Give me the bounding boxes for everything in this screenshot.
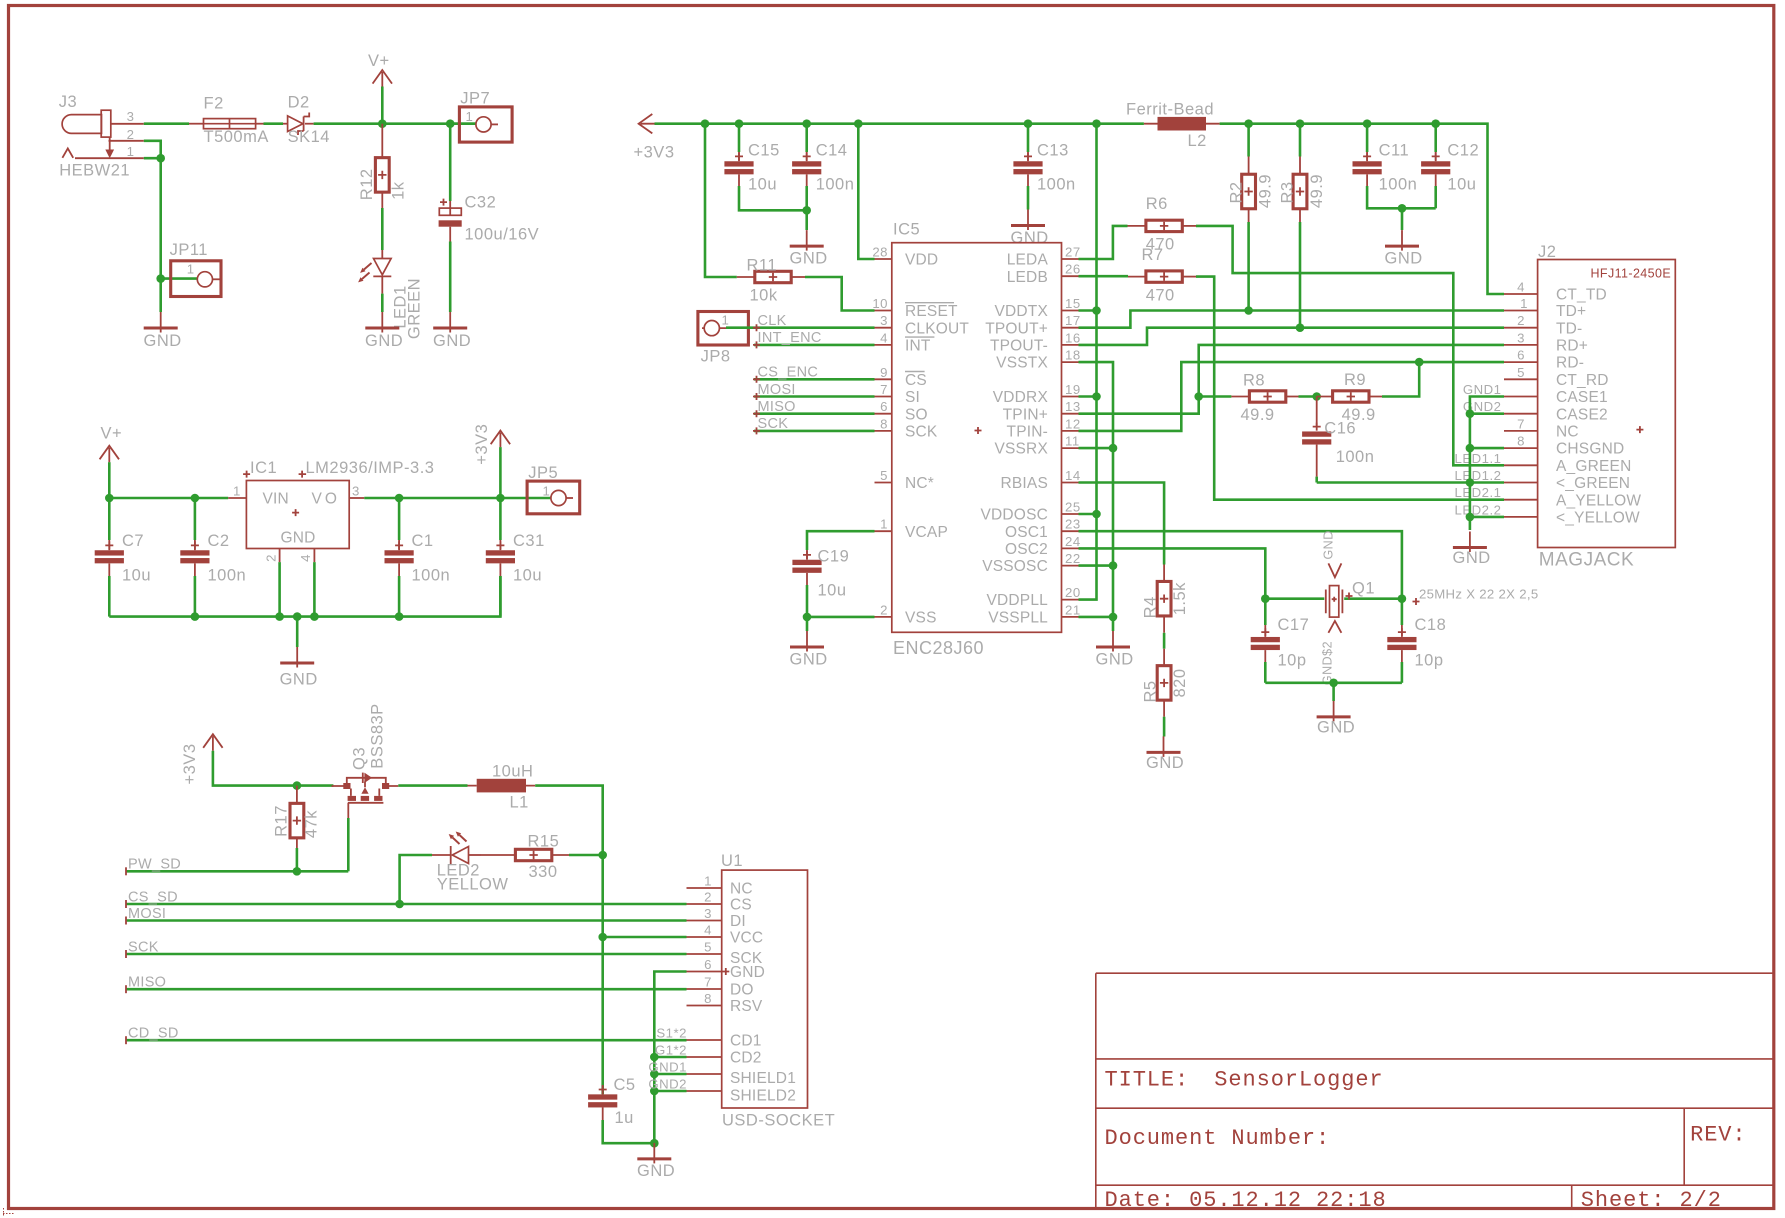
svg-text:CD_SD: CD_SD bbox=[128, 1025, 179, 1041]
svg-text:GND: GND bbox=[1096, 650, 1134, 668]
svg-text:1k: 1k bbox=[390, 181, 408, 200]
svg-text:VCAP: VCAP bbox=[905, 524, 948, 541]
wire R7 to A_YELLOW bbox=[1196, 277, 1504, 500]
svg-text:4: 4 bbox=[1517, 280, 1525, 295]
node junctions bottom rail bbox=[191, 612, 200, 621]
net INT_ENC wire bbox=[754, 344, 875, 347]
svg-text:A_YELLOW: A_YELLOW bbox=[1556, 492, 1641, 509]
svg-text:SensorLogger: SensorLogger bbox=[1214, 1067, 1383, 1092]
svg-text:SCK: SCK bbox=[128, 939, 159, 955]
power +3V3 arrow (SD) bbox=[203, 734, 222, 751]
svg-text:VDDPLL: VDDPLL bbox=[986, 592, 1048, 609]
net OSC1 wire bbox=[1079, 531, 1402, 599]
svg-text:MOSI: MOSI bbox=[758, 382, 796, 398]
svg-text:GND2: GND2 bbox=[648, 1077, 687, 1092]
capacitor C11 100n bbox=[1366, 124, 1369, 152]
svg-text:IC1: IC1 bbox=[250, 459, 277, 477]
svg-text:C31: C31 bbox=[513, 532, 545, 550]
svg-text:R7: R7 bbox=[1142, 246, 1164, 264]
ground under C32 bbox=[433, 312, 467, 333]
svg-text:100n: 100n bbox=[1037, 175, 1076, 193]
svg-text:RESET: RESET bbox=[905, 303, 958, 320]
svg-text:TPIN+: TPIN+ bbox=[1003, 406, 1048, 423]
U1 pin G1*2 CD2 bbox=[687, 1056, 722, 1058]
wire J3 pin3 to fuse bbox=[144, 122, 189, 125]
node junction JP11 bbox=[156, 274, 165, 283]
svg-text:U1: U1 bbox=[721, 852, 743, 870]
svg-text:Q1: Q1 bbox=[1352, 580, 1375, 598]
svg-text:VSSPLL: VSSPLL bbox=[988, 610, 1048, 627]
resistor R17 47k bbox=[296, 786, 298, 848]
LED1 GREEN bbox=[358, 250, 424, 339]
net label CS_SD bbox=[126, 903, 687, 906]
svg-text:BSS83P: BSS83P bbox=[369, 703, 387, 768]
svg-text:GND: GND bbox=[1385, 250, 1423, 268]
svg-text:R6: R6 bbox=[1146, 195, 1168, 213]
ground under MAGJACK bbox=[1453, 532, 1487, 553]
node junction J3 pins bbox=[156, 154, 165, 163]
net label MOSI (SD) bbox=[126, 919, 687, 922]
svg-text:CASE2: CASE2 bbox=[1556, 406, 1608, 423]
net CS_ENC wire bbox=[754, 378, 875, 381]
svg-text:8: 8 bbox=[1517, 434, 1525, 449]
svg-text:1: 1 bbox=[187, 261, 195, 276]
svg-text:NC*: NC* bbox=[905, 475, 934, 492]
capacitor C14 100n bbox=[805, 124, 808, 152]
ground under crystal bbox=[1317, 701, 1351, 722]
rail after bead bbox=[1220, 124, 1504, 294]
IC5 ENC28J60 box bbox=[892, 243, 1062, 633]
IC5 pin 10 RESET bbox=[875, 310, 892, 312]
svg-text:3: 3 bbox=[1517, 330, 1525, 345]
wire VSS bbox=[807, 617, 875, 631]
svg-text:GND: GND bbox=[790, 250, 828, 268]
IC U1 USD-SOCKET bbox=[722, 870, 808, 1108]
svg-text:Ferrit-Bead: Ferrit-Bead bbox=[1126, 101, 1214, 119]
svg-text:11: 11 bbox=[1065, 434, 1080, 449]
svg-text:2: 2 bbox=[263, 554, 278, 562]
svg-text:PW_SD: PW_SD bbox=[128, 857, 181, 873]
svg-text:L2: L2 bbox=[1188, 132, 1207, 150]
svg-text:22: 22 bbox=[1065, 551, 1081, 566]
svg-text:CD2: CD2 bbox=[730, 1050, 762, 1067]
svg-text:3: 3 bbox=[352, 484, 360, 499]
svg-text:1.5k: 1.5k bbox=[1171, 582, 1189, 615]
svg-text:Date: 05.12.12 22:18: Date: 05.12.12 22:18 bbox=[1105, 1188, 1387, 1213]
svg-text:YELLOW: YELLOW bbox=[437, 876, 509, 894]
svg-text:R11: R11 bbox=[747, 257, 778, 275]
svg-text:LED1.2: LED1.2 bbox=[1455, 468, 1502, 483]
J2 pin GND1 CASE1 bbox=[1504, 396, 1538, 398]
svg-text:GND: GND bbox=[1321, 530, 1335, 559]
IC5 pin 23 OSC1 bbox=[1062, 530, 1079, 532]
svg-text:R12: R12 bbox=[358, 168, 376, 200]
svg-text:10uH: 10uH bbox=[492, 763, 533, 781]
svg-text:R8: R8 bbox=[1243, 372, 1265, 390]
IC5 pin 17 TPOUT+ bbox=[1062, 327, 1079, 329]
fuse F2 T500mA bbox=[189, 95, 269, 147]
IC5 pin 1 VCAP bbox=[875, 530, 892, 532]
svg-text:1: 1 bbox=[880, 517, 888, 532]
svg-text:100n: 100n bbox=[208, 567, 247, 585]
svg-text:DI: DI bbox=[730, 913, 746, 930]
svg-text:C16: C16 bbox=[1324, 420, 1356, 438]
svg-text:DO: DO bbox=[730, 982, 754, 999]
resistor R15 330 bbox=[481, 854, 515, 856]
svg-text:C11: C11 bbox=[1379, 142, 1410, 160]
svg-text:49.9: 49.9 bbox=[1257, 174, 1275, 208]
VSSPLL wire bbox=[1079, 616, 1114, 619]
U1 pin 1 NC bbox=[687, 887, 722, 889]
connector J3 HEBW21 bbox=[59, 93, 144, 180]
svg-text:TPOUT-: TPOUT- bbox=[990, 338, 1048, 355]
IC J2 HFJ11-2450E box bbox=[1538, 260, 1676, 548]
U1 pin 3 DI bbox=[687, 920, 722, 922]
svg-text:5: 5 bbox=[704, 940, 712, 955]
svg-text:2: 2 bbox=[1517, 313, 1525, 328]
ground under LED1 bbox=[365, 312, 399, 333]
svg-text:25MHz X 22 2X 2,5: 25MHz X 22 2X 2,5 bbox=[1419, 587, 1538, 602]
svg-text:6: 6 bbox=[704, 957, 712, 972]
capacitor C16 100n bbox=[1316, 397, 1318, 426]
svg-text:CLKOUT: CLKOUT bbox=[905, 320, 969, 337]
svg-text:C15: C15 bbox=[748, 142, 780, 160]
IC5 pin 19 VDDRX bbox=[1062, 396, 1079, 398]
U1 pin S1*2 CD1 bbox=[687, 1039, 722, 1041]
svg-text:10: 10 bbox=[872, 296, 888, 311]
svg-text:SCK: SCK bbox=[905, 424, 938, 441]
resistor R11 10k bbox=[737, 276, 755, 278]
J2 pin LED2.2 &lt;_YELLOW bbox=[1504, 516, 1538, 518]
svg-text:6: 6 bbox=[880, 399, 888, 414]
wire J3 pin2 jog bbox=[144, 141, 161, 158]
wire GND pin6 bbox=[654, 972, 686, 1144]
net TD+ (TPOUT+ to J2 TD+) bbox=[1079, 311, 1505, 328]
wire input rail to VIN bbox=[109, 497, 228, 500]
svg-text:4: 4 bbox=[298, 554, 313, 562]
ground under C13 bbox=[1011, 210, 1045, 231]
svg-text:GND: GND bbox=[637, 1162, 675, 1180]
jumper JP11 bbox=[170, 241, 221, 296]
svg-text:R2: R2 bbox=[1227, 181, 1245, 203]
J2 pin 5 CT_RD bbox=[1504, 378, 1538, 380]
svg-text:Document Number:: Document Number: bbox=[1105, 1126, 1331, 1151]
title block frame bbox=[1096, 973, 1774, 1208]
IC5 pin 15 VDDTX bbox=[1062, 310, 1079, 312]
svg-text:C14: C14 bbox=[816, 142, 848, 160]
svg-text:10u: 10u bbox=[748, 175, 777, 193]
wire VCC bbox=[603, 936, 687, 939]
wire R6 to A_GREEN bbox=[1196, 226, 1504, 465]
svg-text:100n: 100n bbox=[412, 567, 451, 585]
svg-text:100u/16V: 100u/16V bbox=[465, 226, 540, 244]
rail junction nodes (right) bbox=[1244, 119, 1253, 128]
svg-text:2: 2 bbox=[127, 127, 135, 142]
svg-text:23: 23 bbox=[1065, 517, 1081, 532]
svg-text:C17: C17 bbox=[1278, 616, 1310, 634]
rail junction nodes bbox=[701, 119, 710, 128]
svg-text:SK14: SK14 bbox=[288, 128, 330, 146]
svg-text:TD+: TD+ bbox=[1556, 303, 1586, 320]
IC5 pin 27 LEDA bbox=[1062, 258, 1079, 260]
svg-text:IC5: IC5 bbox=[893, 221, 920, 239]
svg-text:<_YELLOW: <_YELLOW bbox=[1556, 510, 1640, 527]
svg-text:VCC: VCC bbox=[730, 930, 763, 947]
capacitor C19 10u bbox=[806, 550, 808, 560]
wire rail to VDD pin28 bbox=[858, 124, 874, 259]
svg-text:C18: C18 bbox=[1415, 616, 1447, 634]
svg-text:VSS: VSS bbox=[905, 610, 937, 627]
main 3V3 rail bbox=[655, 122, 1144, 125]
svg-text:SHIELD1: SHIELD1 bbox=[730, 1070, 796, 1087]
U1 pin 7 DO bbox=[687, 988, 722, 990]
svg-text:100n: 100n bbox=[816, 175, 855, 193]
capacitor C31 10u bbox=[499, 498, 502, 540]
svg-text:1: 1 bbox=[1520, 296, 1528, 311]
svg-text:10p: 10p bbox=[1415, 652, 1444, 670]
svg-text:12: 12 bbox=[1065, 416, 1081, 431]
svg-text:C1: C1 bbox=[412, 532, 434, 550]
svg-text:Sheet: 2/2: Sheet: 2/2 bbox=[1581, 1188, 1722, 1213]
VDDOSC wire bbox=[1079, 513, 1097, 516]
node junction C14 bottom bbox=[802, 206, 811, 215]
svg-text:S1*2: S1*2 bbox=[656, 1026, 687, 1041]
ground under IC1 bbox=[280, 647, 314, 668]
jumper JP8 bbox=[698, 312, 749, 366]
svg-text:CS: CS bbox=[730, 897, 752, 914]
svg-text:28: 28 bbox=[872, 245, 888, 260]
net OSC2 wire bbox=[1079, 548, 1266, 598]
svg-text:49.9: 49.9 bbox=[1308, 174, 1326, 208]
wire K_GREEN / C16 bottom bbox=[1317, 481, 1504, 484]
svg-text:LED2.2: LED2.2 bbox=[1455, 502, 1502, 517]
svg-text:INT: INT bbox=[905, 338, 931, 355]
svg-text:330: 330 bbox=[529, 863, 558, 881]
ground under C15/C14 bbox=[790, 230, 824, 251]
svg-text:OSC1: OSC1 bbox=[1005, 524, 1048, 541]
svg-text:C32: C32 bbox=[465, 194, 497, 212]
svg-text:GND: GND bbox=[1317, 719, 1355, 737]
J2 pin 7 NC bbox=[1504, 430, 1538, 432]
svg-text:J3: J3 bbox=[59, 93, 77, 111]
svg-text:TD-: TD- bbox=[1556, 320, 1582, 337]
svg-text:470: 470 bbox=[1146, 286, 1175, 304]
wire R12 to LED1 bbox=[381, 208, 384, 250]
ground under VSS vertical bbox=[1096, 631, 1130, 652]
svg-text:1: 1 bbox=[127, 144, 135, 159]
svg-text:1: 1 bbox=[543, 484, 551, 499]
svg-text:CT_TD: CT_TD bbox=[1556, 287, 1607, 304]
svg-text:+3V3: +3V3 bbox=[181, 744, 199, 785]
svg-text:7: 7 bbox=[704, 975, 712, 990]
ground under SD socket bbox=[637, 1143, 671, 1164]
net MOSI wire (ENC) bbox=[754, 395, 875, 398]
svg-text:GND: GND bbox=[144, 332, 182, 350]
svg-text:T500mA: T500mA bbox=[204, 128, 269, 146]
net RD- (TPIN- to J2 RD-) bbox=[1079, 362, 1505, 431]
capacitor C5 1u bbox=[602, 1085, 604, 1094]
wire R4 to R5 bbox=[1163, 633, 1166, 649]
resistor R7 470 bbox=[1128, 276, 1146, 278]
capacitor C7 10u bbox=[108, 498, 111, 540]
svg-text:C7: C7 bbox=[122, 532, 144, 550]
node junction C11/C12 mid bbox=[1398, 204, 1407, 213]
svg-text:49.9: 49.9 bbox=[1241, 406, 1275, 424]
IC5 pin 26 LEDB bbox=[1062, 275, 1079, 277]
svg-text:20: 20 bbox=[1065, 585, 1081, 600]
IC5 pin 3 CLKOUT bbox=[875, 327, 892, 329]
svg-text:C2: C2 bbox=[208, 532, 230, 550]
svg-text:MISO: MISO bbox=[758, 399, 796, 415]
wire to GND (SD) bbox=[653, 1143, 656, 1146]
svg-text:SI: SI bbox=[905, 389, 920, 406]
J2 pin 1 TD+ bbox=[1504, 310, 1538, 312]
svg-text:7: 7 bbox=[1517, 416, 1525, 431]
IC5 pin 13 TPIN+ bbox=[1062, 413, 1079, 415]
svg-text:NC: NC bbox=[730, 881, 753, 898]
J2 pin 6 RD- bbox=[1504, 361, 1538, 363]
svg-text:10k: 10k bbox=[750, 287, 778, 305]
wire J3 pin1 to junction bbox=[144, 157, 161, 160]
node junction +3V3 JP5 bbox=[496, 494, 505, 503]
svg-text:4: 4 bbox=[880, 330, 888, 345]
svg-text:RBIAS: RBIAS bbox=[1000, 475, 1048, 492]
net MISO wire (ENC) bbox=[754, 412, 875, 415]
IC5 pin 2 VSS bbox=[875, 616, 892, 618]
svg-text:VDD: VDD bbox=[905, 252, 938, 269]
svg-text:VSSRX: VSSRX bbox=[994, 441, 1048, 458]
node junction V+ R12 bbox=[378, 119, 387, 128]
svg-text:MAGJACK: MAGJACK bbox=[1539, 549, 1634, 570]
wire fuse to diode bbox=[264, 122, 284, 125]
ferrite bead L2 bbox=[1144, 123, 1220, 125]
wire RBIAS to R4 bbox=[1079, 483, 1165, 565]
svg-text:VIN: VIN bbox=[263, 490, 289, 507]
svg-text:1u: 1u bbox=[615, 1109, 634, 1127]
capacitor C18 10p bbox=[1401, 599, 1404, 625]
svg-text:17: 17 bbox=[1065, 313, 1081, 328]
net RD+ (TPIN+ to J2 RD+) bbox=[1079, 345, 1505, 414]
wire pin27 LEDA to R6 bbox=[1079, 226, 1128, 259]
net label PW_SD bbox=[126, 870, 348, 873]
svg-text:CASE1: CASE1 bbox=[1556, 389, 1608, 406]
net CLK wire bbox=[726, 326, 875, 329]
capacitor C2 100n bbox=[194, 498, 197, 540]
svg-text:OSC2: OSC2 bbox=[1005, 541, 1048, 558]
VDD vertical net bbox=[1079, 124, 1097, 600]
resistor R6 470 bbox=[1128, 225, 1146, 227]
U1 pin 8 RSV bbox=[687, 1005, 722, 1007]
J2 pin GND2 CASE2 bbox=[1504, 413, 1538, 415]
jumper JP5 bbox=[527, 464, 580, 514]
svg-text:CS_ENC: CS_ENC bbox=[758, 365, 819, 381]
svg-text:CLK: CLK bbox=[758, 313, 787, 329]
U1 pin GND1 SHIELD1 bbox=[687, 1073, 722, 1075]
svg-text:SHIELD2: SHIELD2 bbox=[730, 1087, 796, 1104]
wire R5 to GND bbox=[1163, 717, 1166, 737]
svg-text:CD1: CD1 bbox=[730, 1033, 762, 1050]
svg-text:VSSTX: VSSTX bbox=[996, 355, 1048, 372]
IC5 pin 4 INT bbox=[875, 344, 892, 346]
crystal Q1 25MHz bbox=[1321, 530, 1539, 685]
svg-text:R9: R9 bbox=[1344, 371, 1366, 389]
node junction V+ C7 bbox=[105, 494, 114, 503]
VSSRX wire bbox=[1079, 447, 1114, 450]
svg-text:VDDTX: VDDTX bbox=[994, 303, 1048, 320]
wire Q3 drain to L1 bbox=[398, 784, 467, 787]
svg-text:Q3: Q3 bbox=[351, 747, 369, 770]
svg-text:15: 15 bbox=[1065, 296, 1081, 311]
IC5 pin 28 VDD bbox=[875, 258, 892, 260]
node junction VCC bbox=[598, 933, 607, 942]
wire LED1 to GND bbox=[381, 294, 384, 312]
svg-text:4: 4 bbox=[704, 923, 712, 938]
svg-text:7: 7 bbox=[880, 382, 888, 397]
IC5 pin 7 SI bbox=[875, 396, 892, 398]
svg-text:V+: V+ bbox=[101, 424, 123, 442]
svg-text:GREEN: GREEN bbox=[406, 278, 424, 339]
power +3V3 arrow (ENC rail) bbox=[639, 114, 655, 133]
svg-text:C12: C12 bbox=[1447, 142, 1479, 160]
svg-text:14: 14 bbox=[1065, 468, 1081, 483]
svg-text:GND: GND bbox=[790, 650, 828, 668]
U1 pin GND2 SHIELD2 bbox=[687, 1090, 722, 1092]
svg-text:16: 16 bbox=[1065, 330, 1081, 345]
wires CD2 SHIELD1 SHIELD2 bbox=[654, 1057, 686, 1091]
svg-text:2: 2 bbox=[704, 890, 712, 905]
svg-text:9: 9 bbox=[880, 365, 888, 380]
resistor R8 49.9 bbox=[1199, 395, 1232, 398]
wire junction to JP11 pin bbox=[161, 277, 197, 280]
power V+ arrow (regulator) bbox=[100, 446, 119, 463]
IC5 pin 5 NC* bbox=[875, 482, 892, 484]
U1 pin 4 VCC bbox=[687, 936, 722, 938]
VSSOSC wire bbox=[1079, 564, 1114, 567]
IC5 pin 16 TPOUT- bbox=[1062, 344, 1079, 346]
svg-text:JP7: JP7 bbox=[460, 90, 490, 108]
IC5 pin 12 TPIN- bbox=[1062, 430, 1079, 432]
transistor Q3 BSS83P bbox=[332, 703, 399, 818]
J2 origin cross bbox=[1636, 426, 1643, 433]
svg-text:GND1: GND1 bbox=[1463, 382, 1502, 397]
svg-text:R17: R17 bbox=[273, 805, 291, 837]
svg-text:26: 26 bbox=[1065, 262, 1081, 277]
node junction R8/R9 C16 bbox=[1312, 392, 1321, 401]
IC5 pin 18 VSSTX bbox=[1062, 361, 1079, 363]
svg-text:USD-SOCKET: USD-SOCKET bbox=[722, 1112, 835, 1130]
svg-text:VO: VO bbox=[312, 490, 340, 507]
J2 pin 8 CHSGND bbox=[1504, 447, 1538, 449]
J2 pin LED1.1 A_GREEN bbox=[1504, 464, 1538, 466]
crystal row wires bbox=[1265, 597, 1402, 600]
svg-text:CS: CS bbox=[905, 372, 927, 389]
svg-text:SCK: SCK bbox=[758, 416, 789, 432]
U1 pin 6 GND bbox=[687, 971, 722, 973]
svg-text:19: 19 bbox=[1065, 382, 1081, 397]
wire GND pins down bbox=[280, 562, 315, 617]
svg-text:+3V3: +3V3 bbox=[473, 424, 491, 465]
IC5 pin 9 CS bbox=[875, 378, 892, 380]
svg-text:100n: 100n bbox=[1336, 448, 1375, 466]
node junction R8 left on TPIN+ net bbox=[1194, 392, 1203, 401]
power +3V3 arrow (regulator out) bbox=[491, 431, 510, 448]
IC5 pin 22 VSSOSC bbox=[1062, 565, 1079, 567]
svg-text:HFJ11-2450E: HFJ11-2450E bbox=[1591, 266, 1672, 280]
svg-text:R3: R3 bbox=[1279, 181, 1297, 203]
svg-text:J2: J2 bbox=[1538, 243, 1556, 261]
J2 pin LED1.2 &lt;_GREEN bbox=[1504, 482, 1538, 484]
svg-text:LED1.1: LED1.1 bbox=[1455, 451, 1502, 466]
